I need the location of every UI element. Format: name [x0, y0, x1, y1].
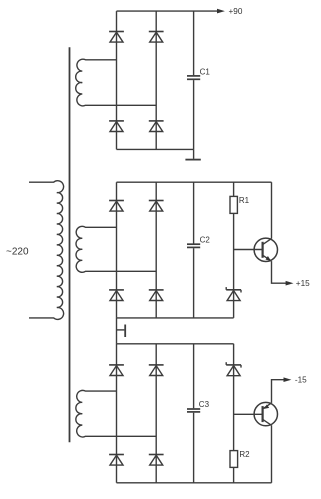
ground (section 1) — [185, 149, 200, 159]
wire Q1 emitter to output — [272, 261, 288, 283]
diode D7 — [109, 290, 124, 301]
wire bridge3 top rail — [117, 343, 234, 345]
wire Q2 emitter to output — [272, 380, 286, 403]
zener VD1 — [226, 287, 241, 301]
arrow -15 — [284, 377, 292, 382]
svg-text:R1: R1 — [239, 196, 250, 205]
transistor Q2 — [254, 402, 277, 425]
resistor R2 — [230, 451, 238, 468]
wire R1/zener column — [233, 182, 235, 318]
transformer primary winding — [29, 181, 64, 320]
svg-text:C2: C2 — [200, 236, 211, 245]
diode D3 — [109, 121, 124, 132]
wire Q2 collector — [271, 425, 273, 483]
ground (common 0V) — [117, 325, 126, 338]
capacitor C3 — [187, 409, 200, 412]
svg-text:C1: C1 — [200, 67, 211, 76]
wire bridge3 bottom rail — [117, 482, 272, 484]
svg-text:R2: R2 — [239, 450, 250, 459]
resistor R1 — [230, 196, 237, 213]
capacitor C1 — [187, 76, 200, 79]
wire bridge1 right column — [155, 11, 157, 149]
wire C3 column bottom — [193, 413, 195, 483]
wire base Q2 — [234, 413, 263, 415]
svg-text:+15: +15 — [296, 279, 310, 288]
wire bridge3 left column — [116, 344, 118, 483]
wire bridge1 bottom rail — [117, 148, 194, 150]
diode D11 — [109, 455, 124, 466]
wire C1 column top — [193, 11, 195, 75]
wire +90 top rail — [117, 10, 219, 12]
capacitor C2 — [187, 244, 200, 247]
diode D9 — [109, 365, 124, 376]
arrow +90 — [217, 9, 225, 14]
diode D8 — [149, 290, 164, 301]
svg-text:-15: -15 — [295, 376, 307, 385]
svg-text:~220: ~220 — [6, 247, 29, 258]
diode D5 — [109, 201, 124, 212]
diode D6 — [149, 201, 164, 212]
secondary winding W1 — [76, 59, 157, 106]
wire link 0V — [116, 318, 118, 344]
wire bridge1 left column — [116, 11, 118, 149]
wire zener/R2 column — [233, 344, 235, 483]
wire C3 column top — [193, 344, 195, 409]
wire C2 column bottom — [193, 248, 195, 318]
arrow +15 — [286, 281, 294, 286]
diode D2 — [149, 32, 164, 43]
diode D12 — [149, 455, 164, 466]
wire C1 column bottom — [193, 80, 195, 149]
diode D10 — [149, 365, 164, 376]
wire C2 column top — [193, 182, 195, 243]
wire bridge2 left column — [116, 182, 118, 318]
svg-text:C3: C3 — [199, 400, 210, 409]
wire bridge3 right column — [155, 344, 157, 483]
wire base Q1 — [234, 249, 263, 251]
secondary winding W2 — [76, 226, 156, 272]
transformer T1 core — [69, 47, 71, 442]
wire Q1 collector — [271, 182, 273, 238]
wire bridge2 bottom rail — [117, 317, 234, 319]
secondary winding W3 — [76, 390, 156, 437]
diode D4 — [149, 121, 164, 132]
diode D1 — [109, 32, 124, 43]
zener VD2 — [226, 362, 241, 376]
transistor Q1 — [254, 238, 277, 261]
wire bridge2 top rail — [117, 181, 272, 183]
wire bridge2 right column — [155, 182, 157, 318]
svg-text:+90: +90 — [229, 7, 243, 16]
